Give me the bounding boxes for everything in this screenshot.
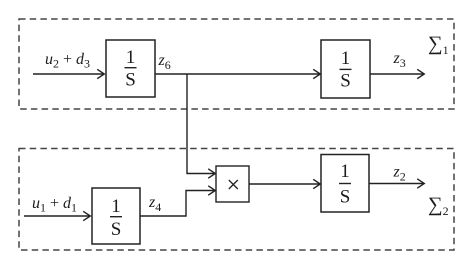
label u1 + d1: [32, 195, 77, 215]
svg-text:S: S: [111, 219, 122, 240]
node label z3: [393, 50, 406, 70]
wire: multiplier output to integrator D: [249, 179, 320, 188]
label Sigma1: [428, 33, 449, 57]
svg-text:1: 1: [341, 48, 351, 69]
integrator block U4 (1/S bottom-right): [321, 155, 369, 213]
integrator block U1 (1/S top-left): [106, 40, 155, 97]
subsystem boundary Sigma2 (dashed box): [19, 149, 454, 251]
svg-text:1: 1: [126, 47, 136, 68]
wire: input u1+d1 into integrator C: [24, 211, 90, 220]
wire: output z3: [370, 69, 424, 78]
wire: z6 from integrator A to integrator B: [155, 69, 320, 78]
svg-text:1: 1: [340, 161, 350, 182]
node label z2: [393, 164, 406, 184]
svg-text:S: S: [340, 71, 351, 92]
svg-text:S: S: [340, 187, 351, 208]
svg-text:u1 + d1: u1 + d1: [32, 195, 77, 215]
label u2 + d3: [45, 51, 90, 71]
wire: output z2: [369, 179, 424, 188]
svg-text:S: S: [125, 70, 136, 91]
integrator block U2 (1/S top-right): [321, 40, 370, 98]
wire: z4 from integrator C up into multiplier input: [140, 186, 215, 216]
node label z6: [158, 52, 171, 72]
svg-text:1: 1: [111, 196, 121, 217]
integrator block U3 (1/S bottom-left): [92, 188, 140, 244]
wire: branch from z6 down to multiplier input (junction at x=187): [187, 74, 215, 178]
wire: input u2+d3 into integrator A: [33, 69, 104, 78]
multiplier block M1 (x): [216, 166, 249, 202]
node label z4: [148, 194, 161, 214]
subsystem boundary Sigma1 (dashed box): [19, 19, 454, 109]
label Sigma2: [428, 194, 449, 218]
svg-text:u2 + d3: u2 + d3: [45, 51, 90, 71]
